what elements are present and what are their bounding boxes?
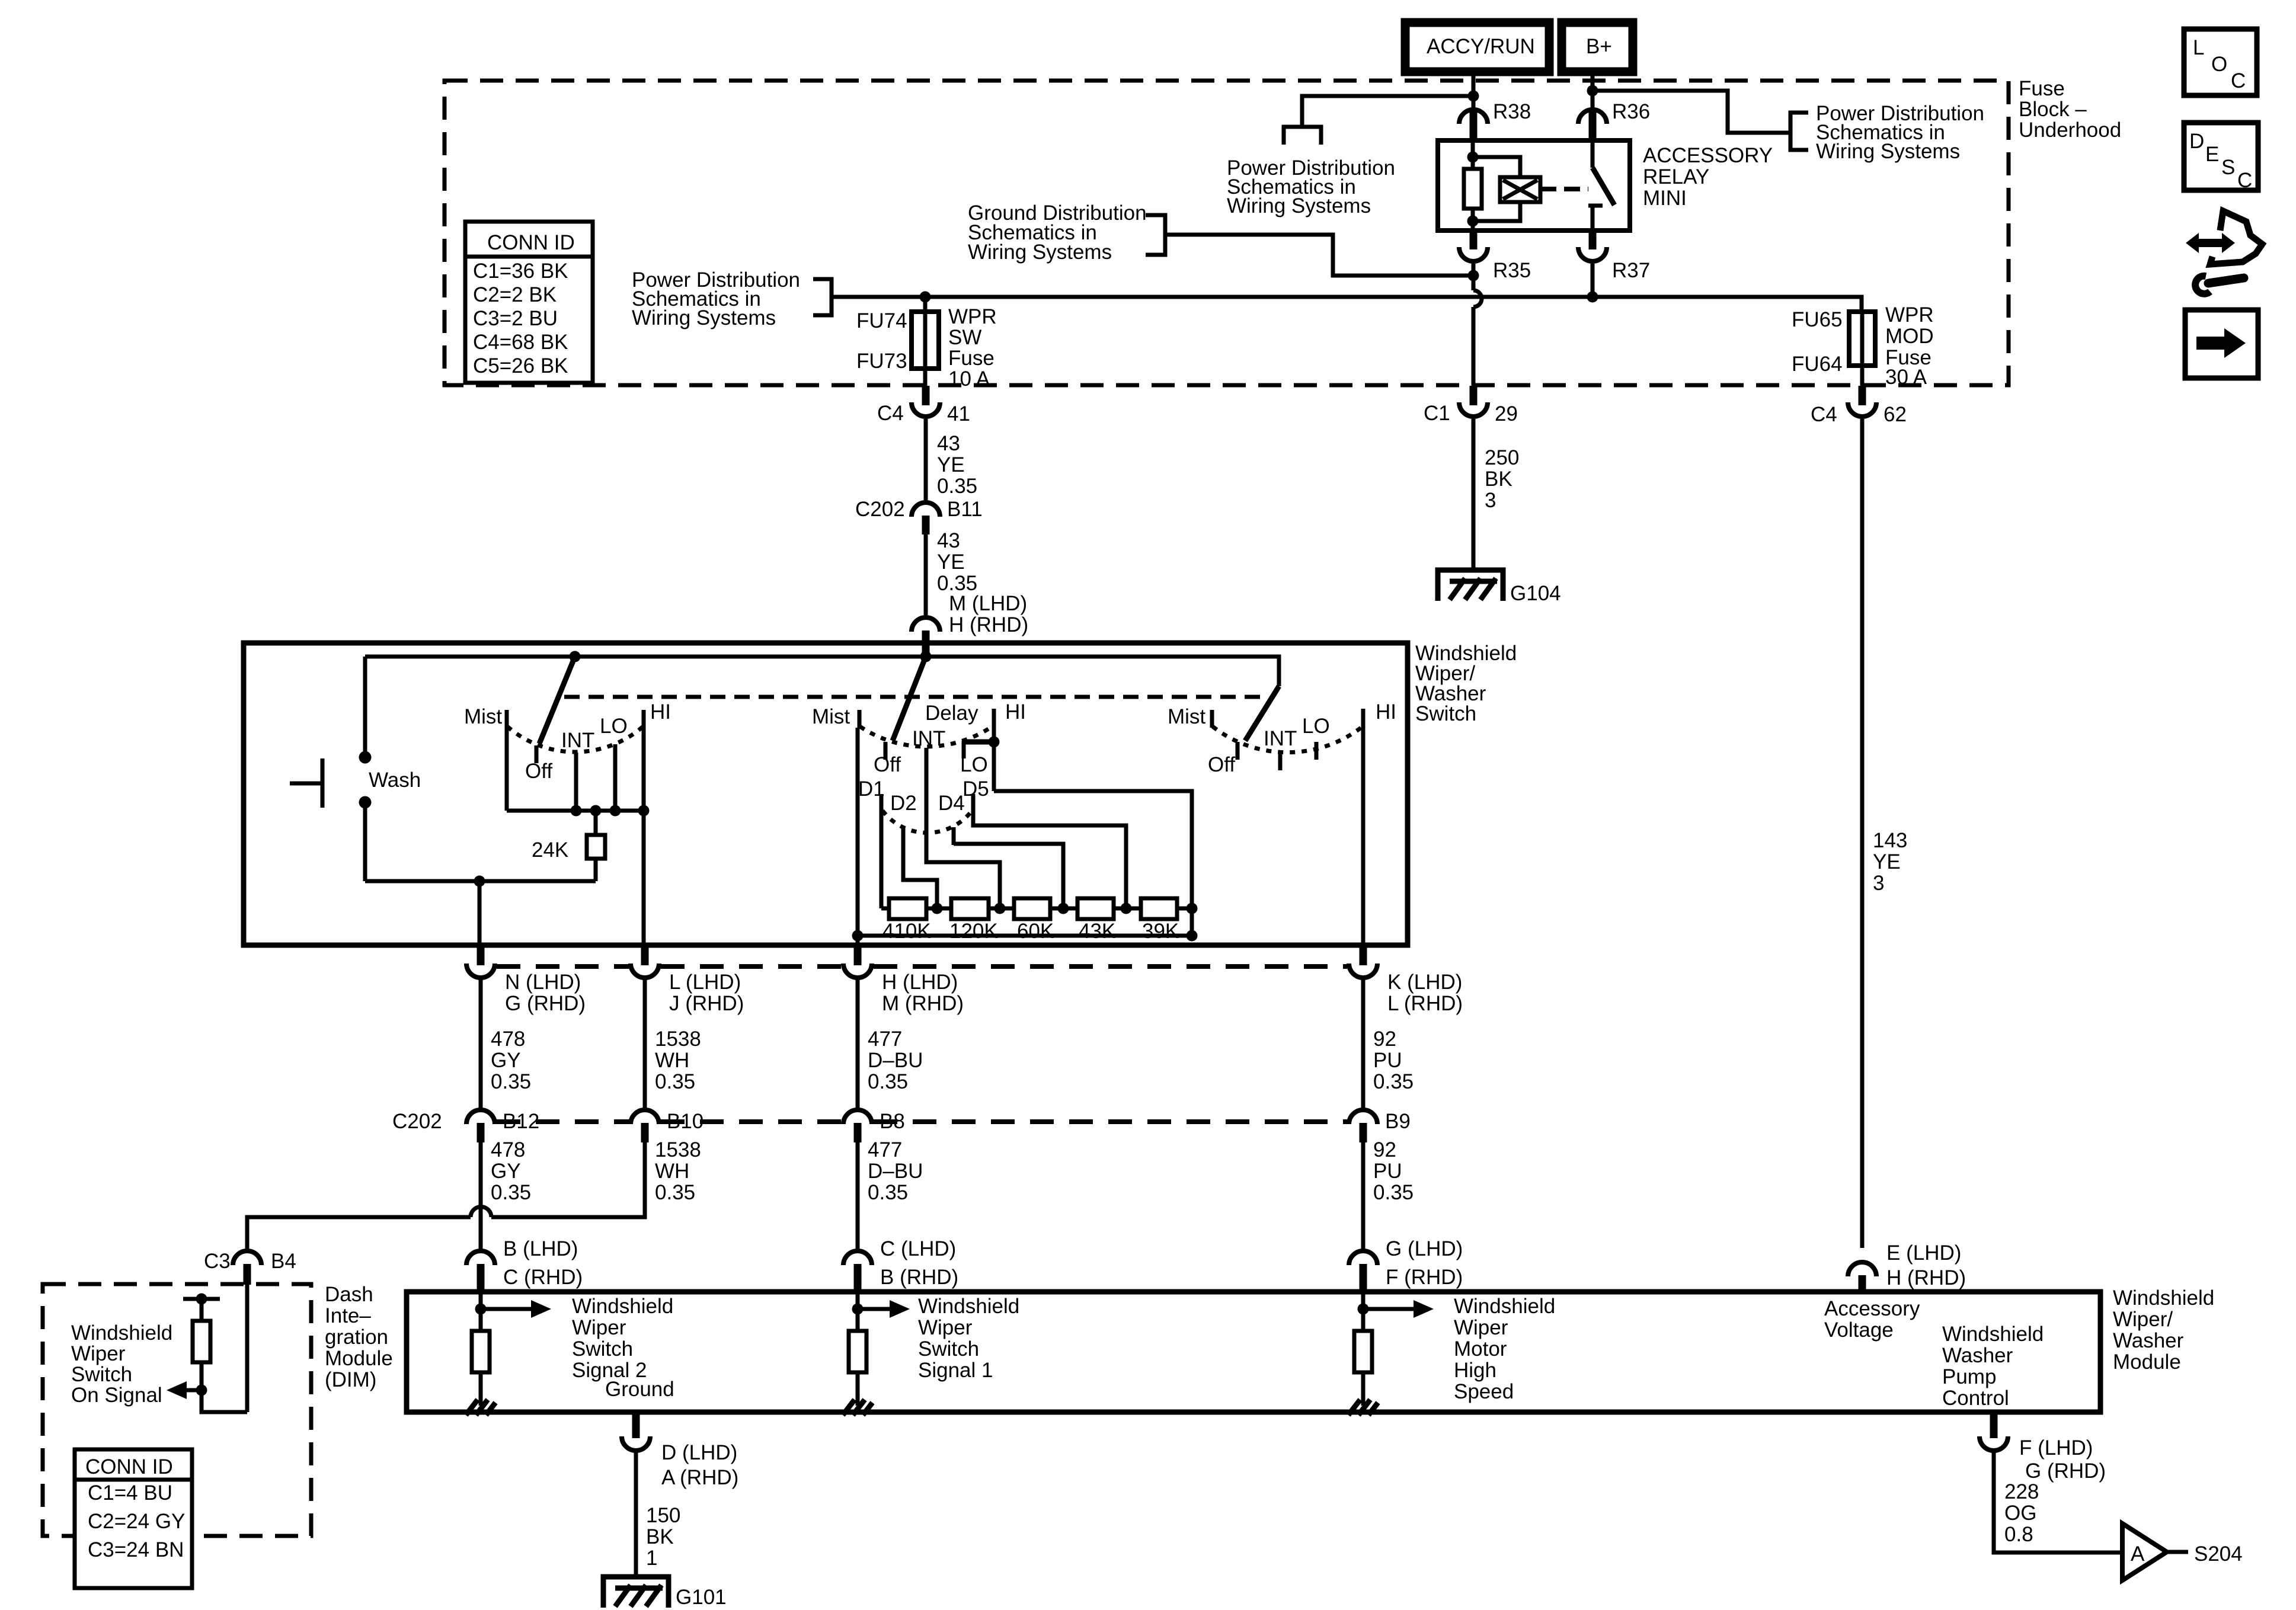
svg-text:J (RHD): J (RHD) <box>669 992 744 1015</box>
svg-text:F (RHD): F (RHD) <box>1386 1266 1463 1289</box>
svg-text:C (LHD): C (LHD) <box>880 1237 956 1260</box>
svg-text:Wiper/: Wiper/ <box>2113 1308 2173 1331</box>
svg-text:B+: B+ <box>1586 35 1612 58</box>
svg-text:0.35: 0.35 <box>491 1070 531 1093</box>
svg-text:MINI: MINI <box>1643 187 1687 210</box>
svg-text:HI: HI <box>1005 700 1026 724</box>
svg-text:SW: SW <box>948 326 981 349</box>
svg-text:FU65: FU65 <box>1792 308 1843 331</box>
svg-text:Wiper: Wiper <box>71 1342 126 1365</box>
svg-text:Off: Off <box>1208 753 1235 776</box>
svg-text:R35: R35 <box>1493 259 1531 282</box>
svg-text:E: E <box>2205 143 2219 166</box>
svg-text:C4: C4 <box>877 402 904 425</box>
svg-text:G101: G101 <box>676 1586 727 1609</box>
svg-text:Module: Module <box>325 1347 393 1370</box>
svg-text:C (RHD): C (RHD) <box>503 1266 583 1289</box>
svg-text:H (LHD): H (LHD) <box>882 971 958 994</box>
svg-text:S204: S204 <box>2194 1542 2243 1566</box>
svg-text:92: 92 <box>1373 1138 1396 1161</box>
svg-text:D5: D5 <box>962 777 989 801</box>
svg-text:FU74: FU74 <box>856 309 907 332</box>
svg-text:Windshield: Windshield <box>1942 1323 2044 1346</box>
svg-text:Accessory: Accessory <box>1824 1297 1920 1320</box>
svg-text:B4: B4 <box>271 1250 296 1273</box>
svg-text:Wash: Wash <box>369 769 421 792</box>
svg-text:G (LHD): G (LHD) <box>1386 1237 1463 1260</box>
svg-text:INT: INT <box>1264 727 1297 750</box>
svg-text:0.35: 0.35 <box>491 1181 531 1204</box>
svg-text:L (LHD): L (LHD) <box>669 971 741 994</box>
svg-text:Speed: Speed <box>1454 1380 1514 1403</box>
svg-text:C202: C202 <box>855 498 905 521</box>
svg-text:43: 43 <box>937 529 960 552</box>
svg-text:Signal 1: Signal 1 <box>918 1359 993 1382</box>
svg-text:M (LHD): M (LHD) <box>949 592 1027 615</box>
svg-text:478: 478 <box>491 1138 525 1161</box>
svg-text:Pump: Pump <box>1942 1365 1996 1388</box>
svg-text:Switch: Switch <box>918 1337 979 1361</box>
svg-text:CONN ID: CONN ID <box>487 231 575 254</box>
svg-text:C: C <box>2231 69 2246 92</box>
svg-text:C3=24 BN: C3=24 BN <box>88 1538 184 1561</box>
svg-text:HI: HI <box>650 700 671 724</box>
svg-text:RELAY: RELAY <box>1643 165 1709 188</box>
svg-text:1538: 1538 <box>655 1028 701 1051</box>
svg-text:0.35: 0.35 <box>655 1181 695 1204</box>
svg-text:B (RHD): B (RHD) <box>880 1266 958 1289</box>
svg-text:120K: 120K <box>949 920 998 943</box>
svg-text:250: 250 <box>1485 446 1519 469</box>
svg-text:D–BU: D–BU <box>868 1160 923 1183</box>
svg-text:Switch: Switch <box>1415 702 1476 725</box>
svg-text:WH: WH <box>655 1160 689 1183</box>
svg-text:Switch: Switch <box>572 1337 633 1361</box>
svg-text:High: High <box>1454 1359 1496 1382</box>
svg-text:3: 3 <box>1485 489 1496 512</box>
svg-text:A (RHD): A (RHD) <box>661 1466 738 1489</box>
svg-text:F (LHD): F (LHD) <box>2019 1436 2093 1459</box>
svg-text:C3=2 BU: C3=2 BU <box>473 307 558 330</box>
svg-text:Control: Control <box>1942 1387 2009 1410</box>
svg-text:D–BU: D–BU <box>868 1049 923 1072</box>
svg-text:C4: C4 <box>1811 403 1837 426</box>
svg-text:C202: C202 <box>392 1110 442 1133</box>
svg-text:92: 92 <box>1373 1028 1396 1051</box>
svg-text:G (RHD): G (RHD) <box>2025 1459 2106 1483</box>
svg-text:B8: B8 <box>880 1110 905 1133</box>
svg-text:FU73: FU73 <box>856 350 907 373</box>
svg-text:ACCESSORY: ACCESSORY <box>1643 144 1773 167</box>
svg-text:On Signal: On Signal <box>71 1384 162 1407</box>
svg-text:Fuse: Fuse <box>2019 77 2065 100</box>
svg-text:B9: B9 <box>1385 1110 1411 1133</box>
svg-text:R36: R36 <box>1612 100 1650 123</box>
svg-text:INT: INT <box>561 729 594 752</box>
svg-text:WH: WH <box>655 1049 689 1072</box>
svg-text:BK: BK <box>1485 468 1512 491</box>
svg-text:1538: 1538 <box>655 1138 701 1161</box>
svg-text:0.8: 0.8 <box>2004 1523 2033 1546</box>
svg-text:10 A: 10 A <box>948 367 990 391</box>
svg-text:Voltage: Voltage <box>1824 1318 1894 1342</box>
svg-text:LO: LO <box>1302 715 1330 738</box>
svg-text:M (RHD): M (RHD) <box>882 992 964 1015</box>
svg-text:OG: OG <box>2004 1502 2036 1525</box>
svg-text:Inte–: Inte– <box>325 1304 371 1327</box>
svg-text:C2=2 BK: C2=2 BK <box>473 283 557 306</box>
svg-text:477: 477 <box>868 1138 902 1161</box>
svg-text:GY: GY <box>491 1160 521 1183</box>
svg-text:YE: YE <box>937 550 965 574</box>
svg-text:C2=24 GY: C2=24 GY <box>88 1510 185 1533</box>
svg-text:43: 43 <box>937 432 960 455</box>
svg-text:R38: R38 <box>1493 100 1531 123</box>
svg-text:G104: G104 <box>1510 582 1561 605</box>
svg-text:29: 29 <box>1495 402 1518 425</box>
svg-text:Motor: Motor <box>1454 1337 1507 1361</box>
svg-text:0.35: 0.35 <box>868 1070 908 1093</box>
svg-text:B12: B12 <box>503 1110 539 1133</box>
svg-text:228: 228 <box>2004 1480 2039 1503</box>
svg-text:D2: D2 <box>890 792 917 815</box>
svg-text:Off: Off <box>525 760 552 783</box>
svg-text:FU64: FU64 <box>1792 353 1843 376</box>
svg-text:Switch: Switch <box>71 1363 132 1386</box>
svg-text:Dash: Dash <box>325 1283 373 1306</box>
svg-text:3: 3 <box>1873 872 1884 895</box>
svg-text:0.35: 0.35 <box>1373 1070 1414 1093</box>
svg-text:B (LHD): B (LHD) <box>503 1237 578 1260</box>
svg-text:477: 477 <box>868 1028 902 1051</box>
svg-text:A: A <box>2131 1542 2145 1566</box>
svg-text:C4=68 BK: C4=68 BK <box>473 331 568 354</box>
svg-text:Wiring Systems: Wiring Systems <box>1227 194 1371 217</box>
svg-text:410K: 410K <box>882 920 931 943</box>
svg-text:62: 62 <box>1884 403 1907 426</box>
svg-text:B11: B11 <box>947 498 983 521</box>
svg-text:Washer: Washer <box>2113 1329 2184 1352</box>
svg-text:Wiring Systems: Wiring Systems <box>1816 140 1960 163</box>
svg-text:S: S <box>2221 156 2235 179</box>
svg-text:L: L <box>2193 36 2204 59</box>
svg-text:143: 143 <box>1873 829 1907 852</box>
svg-text:O: O <box>2211 53 2227 76</box>
svg-text:Wiper: Wiper <box>1454 1316 1508 1339</box>
svg-text:Wiring Systems: Wiring Systems <box>632 306 776 329</box>
svg-text:N (LHD): N (LHD) <box>505 971 581 994</box>
svg-text:Windshield: Windshield <box>1454 1295 1555 1318</box>
svg-text:C1=36 BK: C1=36 BK <box>473 260 568 283</box>
svg-text:C1: C1 <box>1424 402 1450 425</box>
svg-text:Mist: Mist <box>812 705 850 728</box>
svg-text:1: 1 <box>646 1547 657 1570</box>
svg-text:Windshield: Windshield <box>572 1295 673 1318</box>
svg-text:gration: gration <box>325 1326 388 1349</box>
svg-text:G (RHD): G (RHD) <box>505 992 586 1015</box>
svg-text:Block –: Block – <box>2019 98 2087 121</box>
svg-text:Module: Module <box>2113 1350 2181 1374</box>
svg-text:Underhood: Underhood <box>2019 119 2121 142</box>
svg-text:24K: 24K <box>532 838 568 862</box>
svg-text:D: D <box>2189 130 2204 153</box>
svg-text:D4: D4 <box>938 792 965 815</box>
svg-text:39K: 39K <box>1142 920 1179 943</box>
svg-text:0.35: 0.35 <box>1373 1181 1414 1204</box>
svg-text:Wiper: Wiper <box>572 1316 626 1339</box>
svg-text:30 A: 30 A <box>1885 366 1927 389</box>
svg-text:Wiring Systems: Wiring Systems <box>968 241 1112 264</box>
svg-text:Mist: Mist <box>464 705 502 728</box>
svg-text:Mist: Mist <box>1168 705 1205 728</box>
svg-text:PU: PU <box>1373 1049 1402 1072</box>
svg-text:R37: R37 <box>1612 259 1650 282</box>
svg-text:60K: 60K <box>1017 920 1054 943</box>
svg-text:H (RHD): H (RHD) <box>949 613 1028 636</box>
svg-text:478: 478 <box>491 1028 525 1051</box>
svg-text:YE: YE <box>1873 850 1901 873</box>
svg-text:WPR: WPR <box>1885 303 1934 327</box>
svg-text:Wiper: Wiper <box>918 1316 973 1339</box>
svg-text:Delay: Delay <box>925 702 978 725</box>
svg-text:MOD: MOD <box>1885 325 1934 348</box>
svg-text:LO: LO <box>600 715 628 738</box>
svg-text:WPR: WPR <box>948 305 997 328</box>
svg-text:H (RHD): H (RHD) <box>1886 1266 1966 1289</box>
svg-text:C3: C3 <box>204 1250 231 1273</box>
svg-text:C1=4 BU: C1=4 BU <box>88 1481 172 1505</box>
svg-text:0.35: 0.35 <box>937 475 977 498</box>
svg-text:Windshield: Windshield <box>71 1321 172 1345</box>
svg-text:D (LHD): D (LHD) <box>661 1441 737 1464</box>
svg-text:41: 41 <box>947 402 970 425</box>
svg-text:C: C <box>2237 169 2252 192</box>
svg-text:C5=26 BK: C5=26 BK <box>473 354 568 377</box>
svg-text:GY: GY <box>491 1049 521 1072</box>
svg-text:BK: BK <box>646 1525 674 1548</box>
svg-text:B10: B10 <box>667 1110 703 1133</box>
svg-text:Washer: Washer <box>1942 1344 2013 1367</box>
svg-text:E (LHD): E (LHD) <box>1886 1241 1961 1265</box>
svg-text:Ground: Ground <box>605 1378 674 1401</box>
svg-text:PU: PU <box>1373 1160 1402 1183</box>
svg-text:HI: HI <box>1376 700 1396 724</box>
svg-text:0.35: 0.35 <box>655 1070 695 1093</box>
svg-text:Windshield: Windshield <box>2113 1286 2214 1310</box>
svg-text:150: 150 <box>646 1504 680 1527</box>
svg-text:ACCY/RUN: ACCY/RUN <box>1427 35 1535 58</box>
svg-text:CONN ID: CONN ID <box>85 1455 173 1478</box>
svg-text:K (LHD): K (LHD) <box>1387 971 1462 994</box>
svg-text:Fuse: Fuse <box>948 347 994 370</box>
svg-text:43K: 43K <box>1079 920 1115 943</box>
svg-text:(DIM): (DIM) <box>325 1368 376 1391</box>
svg-text:YE: YE <box>937 453 965 476</box>
svg-text:0.35: 0.35 <box>868 1181 908 1204</box>
svg-text:Windshield: Windshield <box>918 1295 1019 1318</box>
svg-text:L (RHD): L (RHD) <box>1387 992 1463 1015</box>
